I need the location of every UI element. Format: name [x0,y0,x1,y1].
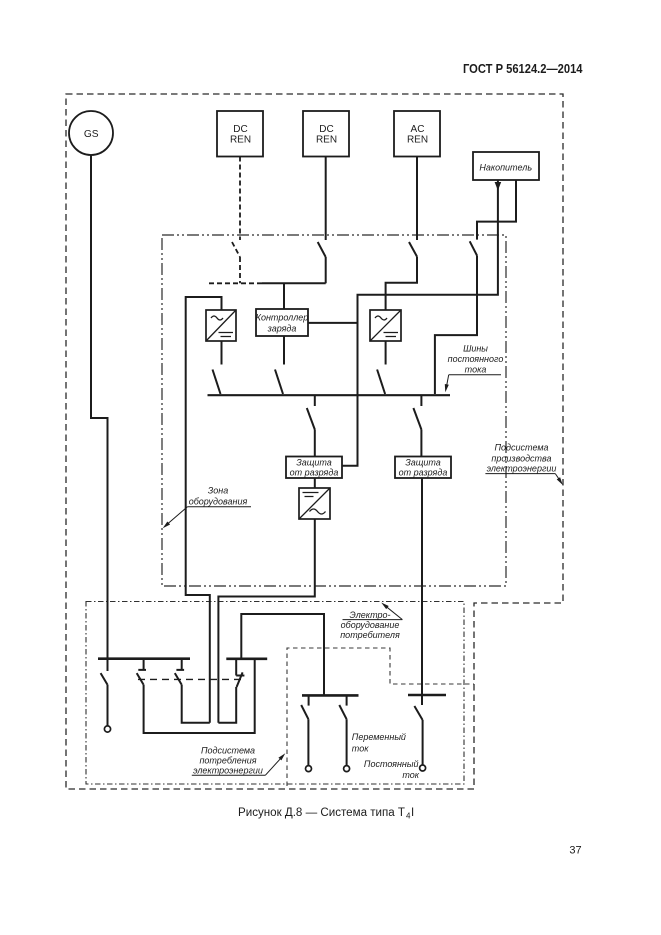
svg-text:от разряда: от разряда [290,468,339,478]
wire AC REN to converter2 [386,257,417,310]
switch DC REN1 (dashed blade) [232,242,240,257]
svg-text:электроэнергии: электроэнергии [487,463,557,473]
wire converter U1 top hook to bus1 route [186,297,222,723]
svg-text:Электро-: Электро- [349,610,390,620]
consumption subsystem dash-dot border [86,602,464,785]
svg-text:постоянного: постоянного [448,354,504,364]
switch charge controller to DC bus [275,370,283,395]
equipment zone dash-dot border [162,235,506,586]
svg-text:Накопитель: Накопитель [479,162,532,172]
wire charge controller bottom [283,336,285,365]
switch discharge protection 2 (below bus) [420,395,422,406]
svg-text:Переменный: Переменный [352,732,406,742]
wire to protection box 2 [420,430,422,457]
box storage Nakopitel [473,152,539,180]
label DC bus (Shiny postoyannogo toka) [445,344,504,393]
terminal circle S6 [306,766,312,772]
switch S2 on bus1 [138,659,146,670]
wire charge controller right link [308,322,358,324]
wire storage center line [342,180,498,466]
box discharge protection 2 [395,457,451,479]
svg-text:37: 37 [569,845,581,857]
switch storage [470,241,477,255]
wire DC REN2 drop [325,157,327,241]
wire S2 to bus2 riser [144,659,255,733]
label equipment zone [163,485,251,528]
svg-text:DC: DC [319,124,333,135]
wire drop to charge controller [283,283,285,309]
svg-text:Защита: Защита [405,458,441,468]
consumer equipment dashed border [287,648,474,786]
wire protection1 to inverter [314,478,316,488]
bus bar 1 (GS bus) [98,657,190,660]
bus bar 4 (DC outlet) [408,694,446,697]
switch S4 (inverter feed to bus2) [236,659,244,676]
svg-text:Постоянный: Постоянный [364,759,419,769]
switch S1 on bus1 [107,659,109,671]
wire S3 to converter U1 route [182,685,210,723]
svg-text:REN: REN [230,135,251,146]
svg-text:Подсистема: Подсистема [494,443,548,453]
switch converter U1 to DC bus [213,370,221,395]
box DC REN 1 [217,111,263,157]
coupling dashed line S2-S3-S4 [138,678,243,680]
generator GS [69,111,113,155]
svg-text:Защита: Защита [296,458,332,468]
wire DC REN1 dashed drop [239,157,241,241]
svg-text:ток: ток [402,770,419,780]
svg-text:Зона: Зона [208,485,229,495]
label consumption subsystem [192,745,285,775]
converter U2 (AC/DC rectifier for AC REN) [370,310,401,341]
arrow into storage line (down) [495,182,502,191]
svg-text:I: I [411,807,414,819]
svg-text:Контроллер: Контроллер [256,313,309,323]
svg-text:от разряда: от разряда [399,468,448,478]
svg-text:Подсистема: Подсистема [201,745,255,755]
DC bus bar [208,394,451,396]
svg-text:ГОСТ Р 56124.2—2014: ГОСТ Р 56124.2—2014 [463,61,583,76]
svg-text:электроэнергии: электроэнергии [193,765,263,775]
switch AC REN [409,242,417,257]
wire REN join horizontal [262,282,326,284]
wire storage right branch [477,180,516,240]
switch S6 on bus3 [308,695,310,705]
label AC current [352,732,406,754]
label DC current [364,759,420,780]
wire converter U1 bottom [221,341,223,365]
box discharge protection 1 [286,457,342,479]
label consumer electrical equipment [340,603,402,641]
wire bus2 to bus3 over-route [241,614,324,695]
svg-text:тока: тока [465,364,487,374]
switch S5 (DC outlet) [421,695,423,705]
box charge controller [256,309,309,336]
svg-text:заряда: заряда [267,324,297,334]
terminal circle S7 [344,766,350,772]
wire converter U2 bottom [385,341,387,365]
svg-text:ток: ток [352,744,369,754]
outer system dashed border [66,94,563,789]
terminal circle S1 [104,726,110,732]
box DC REN 2 [303,111,349,157]
box AC REN [394,111,440,157]
svg-text:производства: производства [491,453,551,463]
converter U1 (AC/DC rectifier for GS) [206,310,236,341]
wire protection2 long drop to DC outlet [421,478,423,705]
svg-text:оборудования: оборудования [189,497,248,507]
switch DC REN2 [318,242,326,257]
svg-text:REN: REN [407,135,428,146]
svg-text:Рисунок Д.8 — Система типа Т: Рисунок Д.8 — Система типа Т [238,807,405,819]
wire GS to bus1 [91,155,108,659]
wire DC REN2 below switch [325,257,327,283]
svg-text:DC: DC [233,124,247,135]
switch S7 on bus3 [346,695,348,705]
svg-text:Шины: Шины [463,344,488,354]
wire inverter output to switch4 route [218,519,314,723]
label production subsystem [485,443,562,486]
wire DC REN1 below switch dashed [209,257,262,283]
svg-text:потребления: потребления [199,755,256,765]
svg-text:потребителя: потребителя [340,630,400,640]
terminal circle S5 [420,765,426,771]
switch discharge protection 1 (below bus) [314,395,316,406]
svg-text:оборудование: оборудование [341,620,400,630]
bus bar 2 [226,657,267,660]
inverter U3 (DC/AC) [299,488,330,519]
wire AC REN drop [416,157,418,241]
svg-text:AC: AC [411,124,425,135]
switch converter U2 to DC bus [377,370,385,395]
svg-text:REN: REN [316,135,337,146]
svg-text:GS: GS [84,129,99,140]
wire storage switch to DC bus [435,256,477,395]
switch S3 on bus1 [176,659,184,670]
wire to protection box 1 [314,430,316,457]
bus bar 3 (AC outlets) [302,694,359,697]
